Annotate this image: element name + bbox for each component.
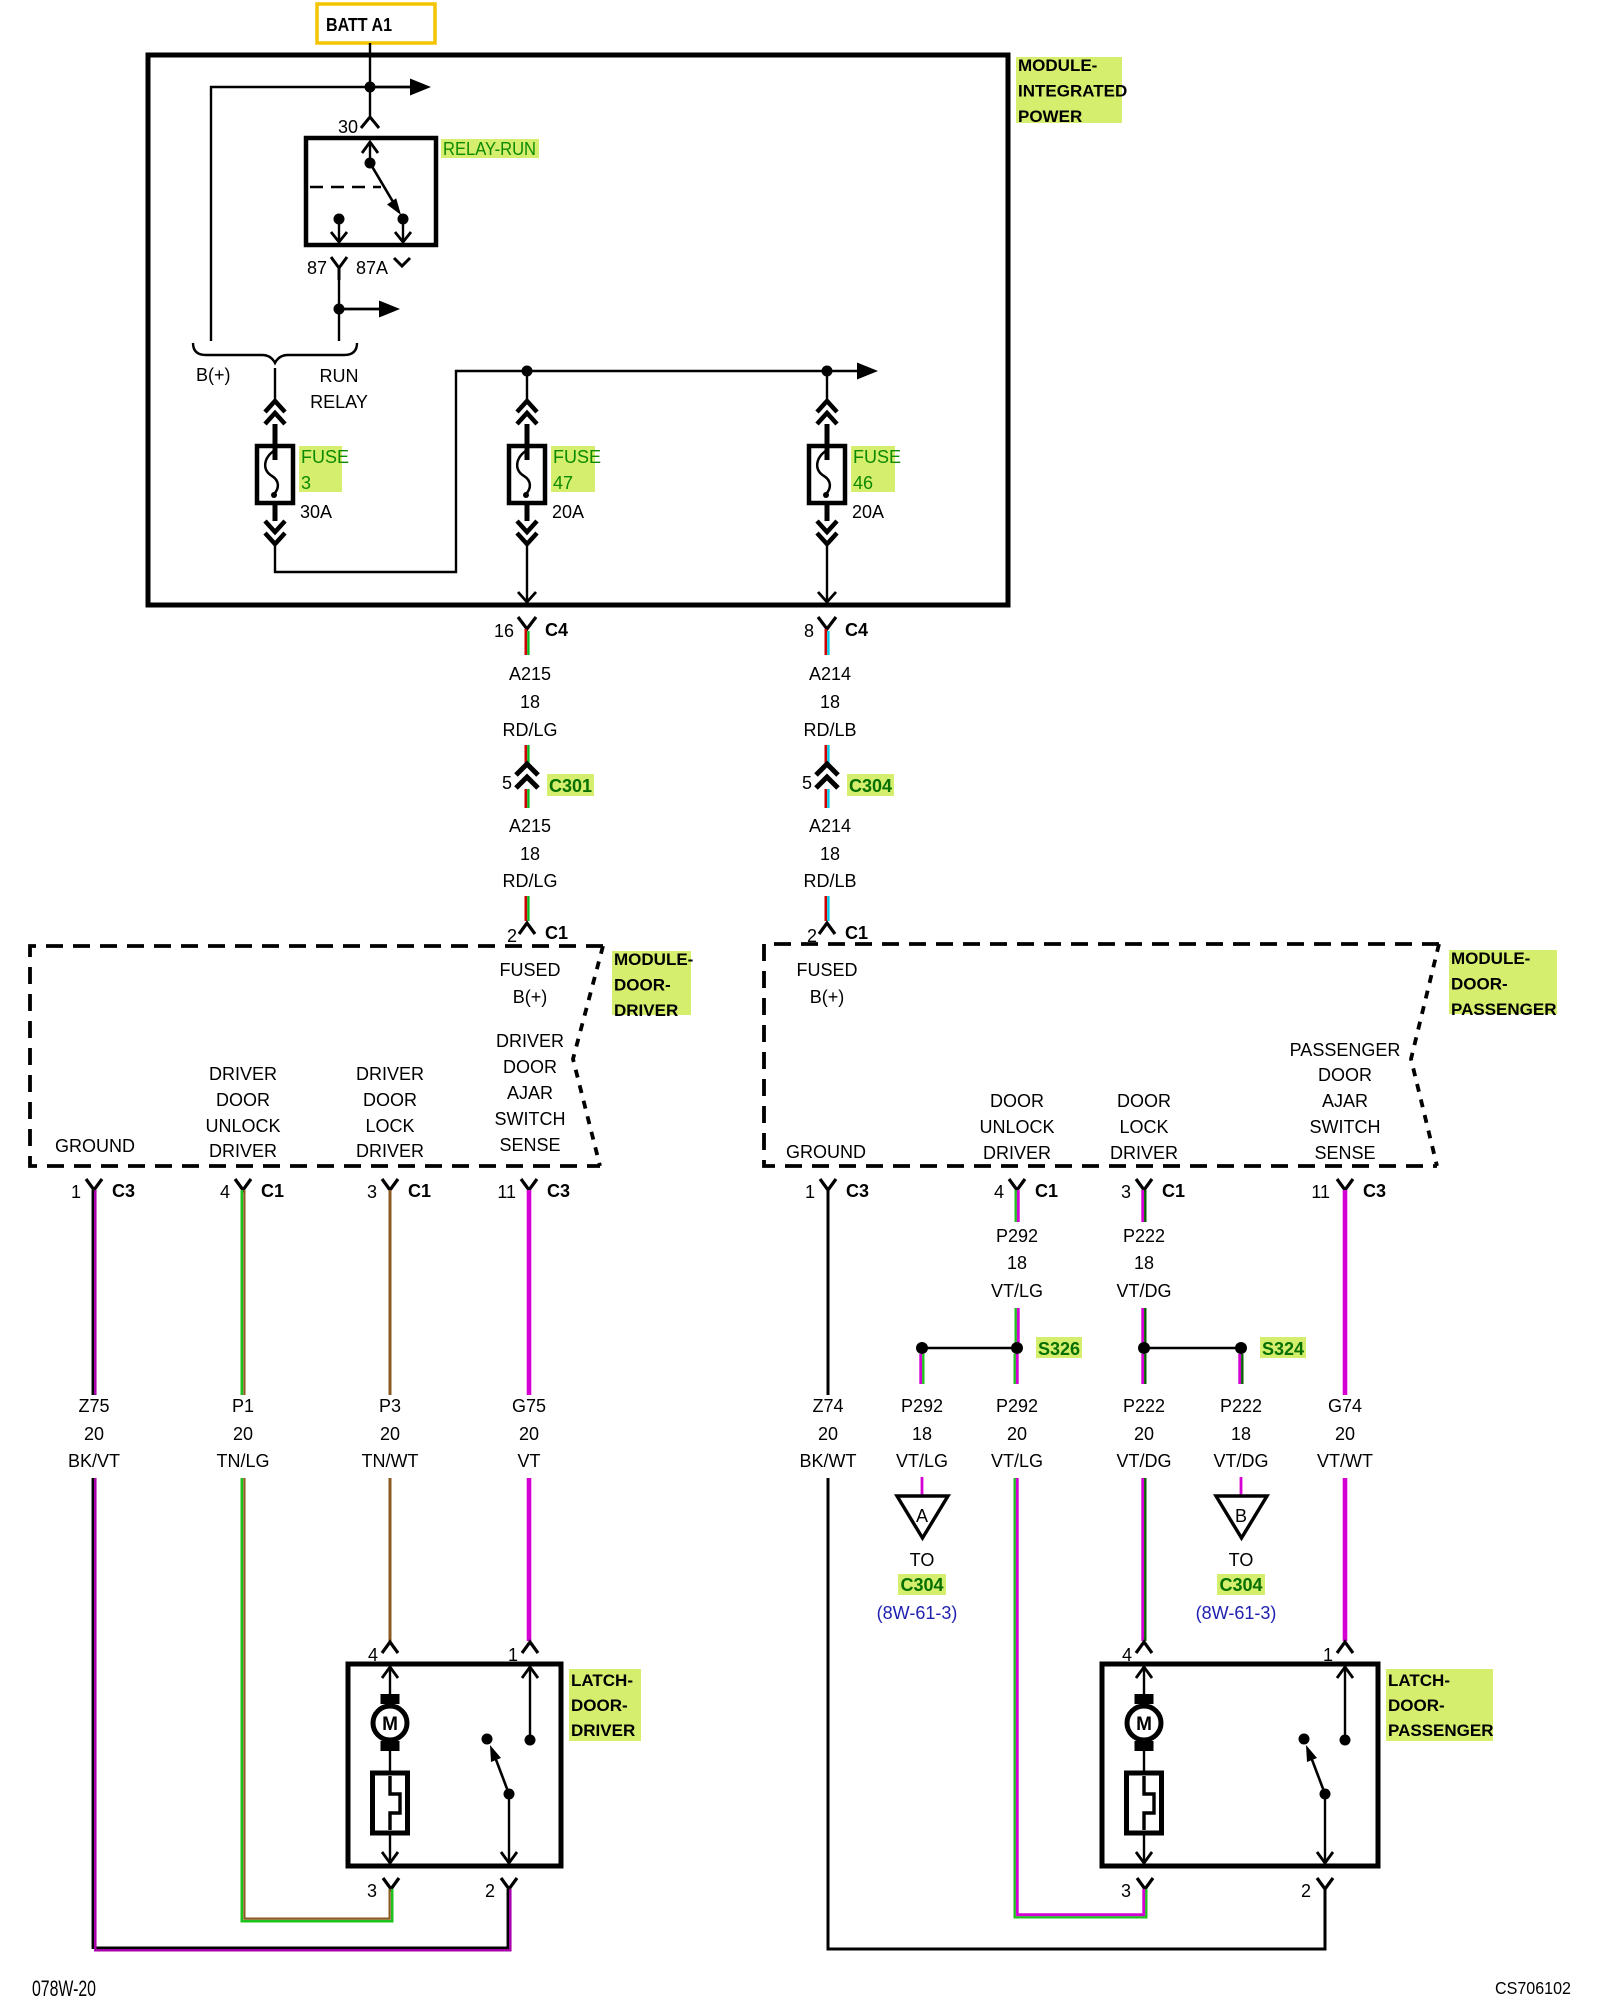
svg-text:DRIVER: DRIVER — [356, 1141, 424, 1161]
svg-text:C3: C3 — [112, 1181, 135, 1201]
connector C1 pin 3 passenger lock — [1121, 1179, 1185, 1202]
svg-text:87: 87 — [307, 258, 327, 278]
svg-text:5: 5 — [802, 773, 812, 793]
svg-text:B(+): B(+) — [513, 987, 548, 1007]
label FUSE 3 — [299, 446, 349, 493]
relay pin 87A internal — [395, 224, 411, 242]
switch ajar driver contacts — [482, 1734, 536, 1746]
wire P1 TN/LG lower bend to latch pin 3 — [242, 1478, 392, 1921]
svg-text:LATCH-: LATCH- — [1388, 1671, 1450, 1690]
relay switch arm — [370, 163, 409, 225]
svg-text:2: 2 — [507, 926, 517, 946]
label wire A215 18 RD/LG upper — [502, 664, 557, 740]
label wire P3 20 TN/WT — [362, 1396, 419, 1471]
svg-text:18: 18 — [520, 692, 540, 712]
svg-text:P222: P222 — [1123, 1396, 1165, 1416]
label DRIVER DOOR LOCK DRIVER — [356, 1064, 424, 1161]
svg-text:DRIVER: DRIVER — [571, 1721, 635, 1740]
label wire A214 18 RD/LB upper — [803, 664, 856, 740]
svg-text:VT/WT: VT/WT — [1317, 1451, 1373, 1471]
connector C3 pin 1 driver ground — [71, 1179, 135, 1202]
svg-text:VT/DG: VT/DG — [1116, 1281, 1171, 1301]
svg-text:30A: 30A — [300, 502, 332, 522]
wire A214 RD/LB above C304 — [826, 745, 829, 764]
label TO C304 triangle A — [898, 1550, 946, 1595]
node junction rail fuse 47 — [522, 366, 533, 377]
svg-text:BK/WT: BK/WT — [800, 1451, 857, 1471]
connector C3 pin 1 passenger ground — [805, 1179, 869, 1202]
pin 87A connector — [356, 258, 410, 278]
svg-text:46: 46 — [853, 473, 873, 493]
connector C301 pin 5 — [502, 764, 594, 796]
svg-text:VT/DG: VT/DG — [1213, 1451, 1268, 1471]
svg-text:MODULE-: MODULE- — [1018, 56, 1097, 75]
wire rail to fuse 47 — [526, 371, 528, 401]
fuse F46 symbol — [809, 446, 845, 503]
svg-text:P222: P222 — [1220, 1396, 1262, 1416]
switch ajar passenger arm — [1306, 1745, 1331, 1800]
svg-text:Z74: Z74 — [812, 1396, 843, 1416]
svg-text:G75: G75 — [512, 1396, 546, 1416]
svg-text:DOOR: DOOR — [216, 1090, 270, 1110]
svg-text:BATT A1: BATT A1 — [326, 15, 392, 35]
wire breaker to pin 3 with arrow driver — [382, 1833, 398, 1863]
label DRIVER DOOR UNLOCK DRIVER — [205, 1064, 280, 1161]
motor M driver — [373, 1694, 407, 1751]
svg-text:47: 47 — [553, 473, 573, 493]
connector C4 pin 16 — [494, 617, 568, 641]
svg-text:20: 20 — [818, 1424, 838, 1444]
svg-text:C3: C3 — [846, 1181, 869, 1201]
svg-text:FUSED: FUSED — [499, 960, 560, 980]
label FUSED B(+) passenger — [796, 960, 857, 1007]
relay pin 87 internal — [331, 214, 347, 243]
wire arrow from 87 junction right — [339, 301, 400, 318]
svg-text:DRIVER: DRIVER — [496, 1031, 564, 1051]
connector double chevron below fuse 3 — [265, 521, 285, 544]
wire motor to breaker driver — [389, 1751, 391, 1773]
wire from 87 down — [338, 280, 340, 341]
label wire P222 18 VT/DG upper — [1116, 1226, 1171, 1301]
wire breaker to pin 3 with arrow passenger — [1136, 1833, 1152, 1863]
svg-text:C4: C4 — [545, 620, 568, 640]
wire Z75 BK/VT lower bend to latch pin 2 — [93, 1478, 511, 1950]
svg-text:C1: C1 — [1035, 1181, 1058, 1201]
connector double chevron below fuse 47 — [517, 521, 537, 544]
svg-text:C1: C1 — [408, 1181, 431, 1201]
connector C1 pin 2 passenger — [807, 923, 868, 946]
wire P3 TN/WT upper — [389, 1190, 392, 1395]
circuit breaker symbol driver — [373, 1773, 408, 1833]
svg-text:3: 3 — [301, 473, 311, 493]
svg-text:20: 20 — [233, 1424, 253, 1444]
wire brace stem — [274, 368, 276, 401]
wire G74 VT/WT upper — [1343, 1190, 1348, 1395]
svg-text:DRIVER: DRIVER — [1110, 1143, 1178, 1163]
connector C1 pin 4 passenger unlock — [994, 1179, 1058, 1202]
svg-text:20: 20 — [380, 1424, 400, 1444]
switch ajar passenger contacts — [1299, 1734, 1351, 1746]
connector double chevron above fuse 47 — [517, 401, 537, 424]
svg-text:20A: 20A — [852, 502, 884, 522]
connector C1 pin 2 driver — [507, 923, 568, 946]
label wire P292 18 VT/LG branch — [896, 1396, 948, 1471]
label sheet number 078W-20 — [32, 1976, 96, 2000]
label wire P1 20 TN/LG — [216, 1396, 269, 1471]
svg-text:87A: 87A — [356, 258, 388, 278]
svg-text:SENSE: SENSE — [1314, 1143, 1375, 1163]
svg-text:BK/VT: BK/VT — [68, 1451, 120, 1471]
connector latch driver pin 3 — [367, 1878, 399, 1901]
svg-text:P292: P292 — [901, 1396, 943, 1416]
connector C1 pin 4 driver unlock — [220, 1179, 284, 1202]
relay coil dashed line — [310, 186, 381, 189]
svg-text:P222: P222 — [1123, 1226, 1165, 1246]
wire G74 VT/WT lower to passenger latch pin 1 — [1343, 1478, 1348, 1641]
wire A215 RD/LG stem below C4 — [526, 629, 529, 655]
wire G75 VT upper — [527, 1190, 532, 1395]
svg-text:16: 16 — [494, 621, 514, 641]
svg-text:1: 1 — [805, 1182, 815, 1202]
node junction rail fuse 46 — [822, 366, 833, 377]
svg-text:SWITCH: SWITCH — [495, 1109, 566, 1129]
svg-text:4: 4 — [994, 1182, 1004, 1202]
svg-text:DOOR-: DOOR- — [614, 976, 671, 995]
label DOOR UNLOCK DRIVER passenger — [979, 1091, 1054, 1163]
label 20A fuse 47 — [552, 502, 584, 522]
svg-text:PASSENGER: PASSENGER — [1451, 1000, 1557, 1019]
wire P222 VT/DG main below splice — [1143, 1354, 1146, 1384]
node junction at top feed — [365, 82, 376, 93]
label wire P292 18 VT/LG upper — [991, 1226, 1043, 1301]
svg-text:RUN: RUN — [320, 366, 359, 386]
label wire G74 20 VT/WT — [1317, 1396, 1373, 1471]
svg-text:S324: S324 — [1262, 1339, 1304, 1359]
label MODULE-DOOR-PASSENGER — [1449, 949, 1557, 1019]
battery feed label BATT A1 — [317, 4, 435, 43]
connector C3 pin 11 driver ajar — [497, 1179, 570, 1202]
wire latch driver pin4 internal with arrow — [382, 1667, 398, 1695]
svg-text:5: 5 — [502, 773, 512, 793]
wire rail to fuse 46 — [826, 371, 828, 401]
wire from junction down to relay pin 30 — [369, 87, 371, 116]
svg-text:18: 18 — [1007, 1253, 1027, 1273]
label DRIVER DOOR AJAR SWITCH SENSE — [495, 1031, 566, 1155]
svg-text:DOOR: DOOR — [990, 1091, 1044, 1111]
svg-text:078W-20: 078W-20 — [32, 1976, 96, 2000]
svg-text:C1: C1 — [845, 923, 868, 943]
wire switch to pin 2 with arrow driver — [501, 1794, 517, 1863]
label RELAY-RUN — [441, 139, 539, 159]
label 20A fuse 46 — [852, 502, 884, 522]
svg-text:TN/LG: TN/LG — [216, 1451, 269, 1471]
svg-text:M: M — [382, 1714, 398, 1735]
wire thick below fuse 47 — [525, 503, 530, 521]
wire A214 RD/LB stem below C4 — [826, 629, 829, 655]
svg-text:FUSED: FUSED — [796, 960, 857, 980]
wire P222 VT/DG above splice — [1143, 1308, 1146, 1348]
svg-text:A215: A215 — [509, 664, 551, 684]
wire thick below fuse 3 — [273, 503, 278, 521]
svg-text:P3: P3 — [379, 1396, 401, 1416]
wire latch passenger pin4 internal with arrow — [1136, 1667, 1152, 1695]
svg-text:PASSENGER: PASSENGER — [1388, 1721, 1494, 1740]
svg-text:30: 30 — [338, 117, 358, 137]
label B(+) — [196, 365, 231, 385]
label LATCH-DOOR-PASSENGER — [1386, 1669, 1494, 1741]
svg-text:DOOR: DOOR — [363, 1090, 417, 1110]
svg-text:(8W-61-3): (8W-61-3) — [1196, 1603, 1277, 1623]
connector latch driver pin 2 — [485, 1878, 517, 1901]
svg-text:AJAR: AJAR — [507, 1083, 553, 1103]
off-page connector triangle B — [1216, 1496, 1267, 1538]
module MODULE-INTEGRATED POWER box — [148, 55, 1008, 605]
label RUN RELAY — [310, 366, 368, 412]
svg-text:11: 11 — [1311, 1182, 1330, 1202]
wire arrow rail right end — [857, 363, 878, 380]
motor M passenger — [1127, 1694, 1161, 1751]
svg-text:MODULE-: MODULE- — [1451, 949, 1530, 968]
svg-text:C1: C1 — [261, 1181, 284, 1201]
svg-text:1: 1 — [71, 1182, 81, 1202]
wire from BATT A1 into box — [369, 43, 371, 87]
svg-text:DOOR-: DOOR- — [571, 1696, 628, 1715]
svg-text:DOOR: DOOR — [1318, 1065, 1372, 1085]
latch LATCH-DOOR-DRIVER box — [348, 1664, 561, 1866]
svg-text:DOOR-: DOOR- — [1451, 975, 1508, 994]
svg-text:DRIVER: DRIVER — [614, 1001, 678, 1020]
label FUSE 47 — [551, 446, 601, 493]
wire P222 VT/DG above label — [1143, 1190, 1146, 1222]
wire P1 TN/LG upper — [242, 1190, 245, 1395]
svg-text:DRIVER: DRIVER — [209, 1141, 277, 1161]
svg-text:3: 3 — [1121, 1881, 1131, 1901]
svg-text:RELAY-RUN: RELAY-RUN — [443, 139, 536, 159]
wire P292 VT/LG branch below splice — [921, 1354, 924, 1384]
wire A215 RD/LG above C301 — [526, 745, 529, 764]
pin 30 connector — [338, 117, 379, 137]
wire thick below fuse 46 — [825, 503, 830, 521]
svg-text:INTEGRATED: INTEGRATED — [1018, 82, 1127, 101]
svg-text:RELAY: RELAY — [310, 392, 368, 412]
svg-text:18: 18 — [1231, 1424, 1251, 1444]
label GROUND passenger — [786, 1142, 866, 1162]
svg-text:2: 2 — [485, 1881, 495, 1901]
svg-text:FUSE: FUSE — [853, 447, 901, 467]
fuse F3 symbol — [257, 446, 293, 503]
fuse F47 symbol — [509, 446, 545, 503]
label FUSED B(+) driver — [499, 960, 560, 1007]
svg-text:DRIVER: DRIVER — [356, 1064, 424, 1084]
connector latch driver pin 1 — [508, 1642, 538, 1665]
svg-text:20: 20 — [1134, 1424, 1154, 1444]
label wire P222 20 VT/DG main — [1116, 1396, 1171, 1471]
svg-text:M: M — [1136, 1714, 1152, 1735]
svg-text:C301: C301 — [549, 776, 592, 796]
svg-text:A215: A215 — [509, 816, 551, 836]
svg-text:2: 2 — [1301, 1881, 1311, 1901]
svg-text:SENSE: SENSE — [499, 1135, 560, 1155]
label LATCH-DOOR-DRIVER — [569, 1669, 641, 1741]
brace grouping B(+) and RUN RELAY — [193, 343, 357, 363]
label 30A — [300, 502, 332, 522]
connector double chevron above fuse 3 — [265, 401, 285, 424]
svg-text:TO: TO — [910, 1550, 935, 1570]
connector C3 pin 11 passenger ajar — [1311, 1179, 1386, 1202]
svg-text:GROUND: GROUND — [55, 1136, 135, 1156]
label DOOR LOCK DRIVER passenger — [1110, 1091, 1178, 1163]
svg-text:LOCK: LOCK — [365, 1116, 414, 1136]
svg-text:TN/WT: TN/WT — [362, 1451, 419, 1471]
svg-text:C1: C1 — [545, 923, 568, 943]
svg-text:GROUND: GROUND — [786, 1142, 866, 1162]
svg-text:VT/LG: VT/LG — [896, 1451, 948, 1471]
wire A215 RD/LG below C301 — [526, 789, 529, 808]
svg-text:3: 3 — [367, 1881, 377, 1901]
svg-text:A214: A214 — [809, 816, 851, 836]
label (8W-61-3) triangle B — [1196, 1603, 1277, 1623]
wire P292 VT/LG lower bend to passenger latch pin 3 — [1015, 1478, 1147, 1917]
wire P222 VT/DG branch below splice — [1240, 1354, 1243, 1384]
svg-text:C1: C1 — [1162, 1181, 1185, 1201]
wire G75 VT lower to latch pin 1 — [527, 1478, 532, 1641]
svg-text:18: 18 — [820, 692, 840, 712]
svg-text:3: 3 — [1121, 1182, 1131, 1202]
svg-text:LATCH-: LATCH- — [571, 1671, 633, 1690]
svg-text:18: 18 — [912, 1424, 932, 1444]
wire Z74 BK/WT lower bend to passenger latch pin 2 — [828, 1478, 1325, 1949]
wire arrow feed continuing right — [370, 79, 431, 96]
label MODULE-INTEGRATED POWER — [1016, 56, 1127, 126]
svg-text:C4: C4 — [845, 620, 868, 640]
label wire G75 20 VT — [512, 1396, 546, 1471]
svg-text:DOOR: DOOR — [503, 1057, 557, 1077]
connector latch driver pin 4 — [368, 1642, 398, 1665]
label MODULE-DOOR-DRIVER — [612, 950, 693, 1020]
svg-text:AJAR: AJAR — [1322, 1091, 1368, 1111]
splice S326 — [916, 1337, 1082, 1359]
switch ajar driver arm — [490, 1745, 515, 1800]
relay RELAY-RUN box — [306, 138, 436, 245]
latch LATCH-DOOR-PASSENGER box — [1102, 1664, 1378, 1866]
wire P222 VT/DG lower to passenger latch pin 4 — [1143, 1478, 1146, 1641]
relay pin 30 internal arrow — [362, 142, 378, 169]
wire Z74 BK/WT upper — [827, 1190, 830, 1395]
svg-text:RD/LG: RD/LG — [502, 720, 557, 740]
svg-text:(8W-61-3): (8W-61-3) — [877, 1603, 958, 1623]
wire P3 TN/WT lower to latch pin 4 — [389, 1478, 392, 1641]
wire A214 RD/LB below C304 — [826, 789, 829, 808]
off-page connector triangle A — [897, 1496, 948, 1538]
svg-text:C304: C304 — [900, 1575, 943, 1595]
label wire Z75 20 BK/VT — [68, 1396, 120, 1471]
wire A214 RD/LB above C1 — [826, 896, 829, 921]
wire thick into fuse 46 — [825, 424, 830, 460]
label wire A215 18 RD/LG lower — [502, 816, 557, 891]
svg-text:P292: P292 — [996, 1226, 1038, 1246]
svg-text:FUSE: FUSE — [553, 447, 601, 467]
svg-text:LOCK: LOCK — [1119, 1117, 1168, 1137]
svg-text:VT/LG: VT/LG — [991, 1281, 1043, 1301]
svg-text:18: 18 — [820, 844, 840, 864]
label PASSENGER DOOR AJAR SWITCH SENSE — [1290, 1040, 1401, 1163]
connector latch passenger pin 2 — [1301, 1878, 1333, 1901]
svg-text:SWITCH: SWITCH — [1310, 1117, 1381, 1137]
connector C304 pin 5 — [802, 764, 894, 796]
connector double chevron above fuse 46 — [817, 401, 837, 424]
svg-text:A214: A214 — [809, 664, 851, 684]
pin 87 connector — [307, 257, 347, 280]
svg-text:CS706102: CS706102 — [1495, 1978, 1571, 1998]
circuit breaker symbol passenger — [1127, 1773, 1162, 1833]
label FUSE 46 — [851, 446, 901, 493]
svg-text:UNLOCK: UNLOCK — [205, 1116, 280, 1136]
node junction below 87 — [334, 304, 345, 315]
svg-text:UNLOCK: UNLOCK — [979, 1117, 1054, 1137]
svg-text:DRIVER: DRIVER — [209, 1064, 277, 1084]
svg-text:20: 20 — [519, 1424, 539, 1444]
label wire P222 18 VT/DG branch — [1213, 1396, 1268, 1471]
svg-text:11: 11 — [497, 1182, 516, 1202]
svg-text:DOOR-: DOOR- — [1388, 1696, 1445, 1715]
wire P292 VT/LG main below splice — [1015, 1354, 1018, 1384]
svg-text:VT/LG: VT/LG — [991, 1451, 1043, 1471]
wire A215 RD/LG above C1 — [526, 896, 529, 921]
wire VT/DG into triangle B — [1240, 1477, 1243, 1496]
svg-text:8: 8 — [804, 621, 814, 641]
svg-text:20A: 20A — [552, 502, 584, 522]
wire thick into fuse 3 — [273, 424, 278, 460]
label wire Z74 20 BK/WT — [800, 1396, 857, 1471]
label (8W-61-3) triangle A — [877, 1603, 958, 1623]
svg-text:C304: C304 — [849, 776, 892, 796]
svg-text:RD/LB: RD/LB — [803, 871, 856, 891]
svg-text:DRIVER: DRIVER — [983, 1143, 1051, 1163]
svg-text:FUSE: FUSE — [301, 447, 349, 467]
svg-text:VT: VT — [517, 1451, 540, 1471]
svg-text:TO: TO — [1229, 1550, 1254, 1570]
module MODULE-DOOR-DRIVER dashed box — [30, 946, 603, 1166]
wire top horizontal to left branch — [211, 87, 370, 341]
wire motor to breaker passenger — [1143, 1751, 1145, 1773]
svg-text:20: 20 — [1007, 1424, 1027, 1444]
label GROUND driver — [55, 1136, 135, 1156]
svg-text:POWER: POWER — [1018, 107, 1082, 126]
svg-text:P292: P292 — [996, 1396, 1038, 1416]
wire fuse 46 to box edge — [818, 544, 836, 602]
label TO C304 triangle B — [1217, 1550, 1265, 1595]
svg-text:C3: C3 — [1363, 1181, 1386, 1201]
wire latch driver pin1 internal with arrow — [522, 1667, 538, 1740]
connector latch passenger pin 1 — [1323, 1642, 1353, 1665]
connector latch passenger pin 3 — [1121, 1878, 1153, 1901]
svg-text:RD/LB: RD/LB — [803, 720, 856, 740]
svg-text:18: 18 — [1134, 1253, 1154, 1273]
wire P292 VT/LG above splice — [1016, 1308, 1019, 1348]
label drawing number CS706102 — [1495, 1978, 1571, 1998]
connector C1 pin 3 driver lock — [367, 1179, 431, 1202]
wire thick into fuse 47 — [525, 424, 530, 460]
wire latch passenger pin1 internal with arrow — [1337, 1667, 1353, 1740]
svg-text:DOOR: DOOR — [1117, 1091, 1171, 1111]
connector double chevron below fuse 46 — [817, 521, 837, 544]
svg-text:20: 20 — [1335, 1424, 1355, 1444]
connector latch passenger pin 4 — [1122, 1642, 1152, 1665]
splice S324 — [1138, 1337, 1306, 1359]
wire fuse 47 to box edge — [518, 544, 536, 602]
svg-text:VT/DG: VT/DG — [1116, 1451, 1171, 1471]
svg-text:G74: G74 — [1328, 1396, 1362, 1416]
